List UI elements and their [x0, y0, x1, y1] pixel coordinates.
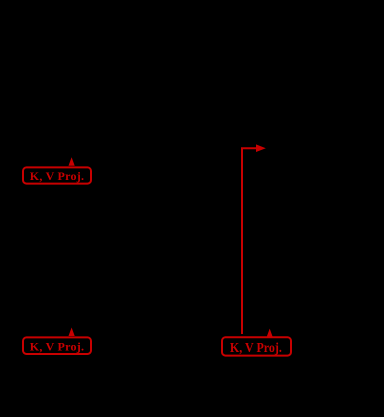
box K,V Proj layer-2 (bottom-left) — [23, 337, 91, 354]
arrowhead into box layer-3 — [267, 329, 273, 338]
svg-text:K, V Proj.: K, V Proj. — [30, 169, 85, 183]
svg-text:K, V Proj.: K, V Proj. — [30, 340, 85, 354]
box K,V Proj layer-1 (top-left) — [23, 167, 91, 183]
arrowhead into box layer-2 — [69, 328, 75, 337]
arrowhead of KV-cache reuse wire (points right) — [256, 144, 266, 152]
svg-text:K, V Proj.: K, V Proj. — [230, 341, 282, 356]
arrowhead into box layer-1 — [69, 157, 75, 166]
box K,V Proj layer-3 (bottom-right) — [222, 337, 291, 356]
wire KV-cache reuse (vertical + horizontal) — [242, 148, 257, 334]
